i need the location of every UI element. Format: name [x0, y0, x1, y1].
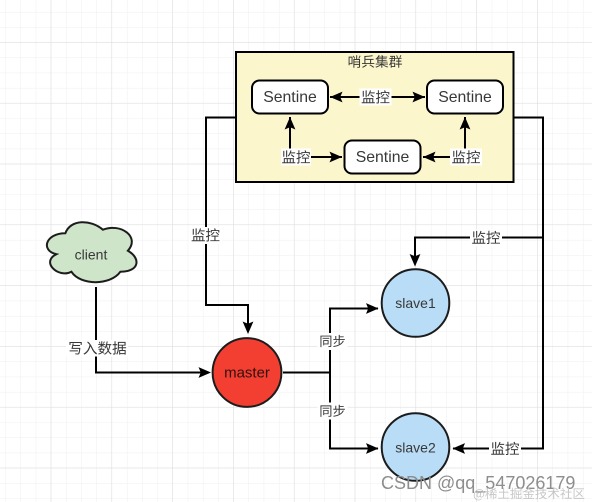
svg-text:slave1: slave1 — [395, 295, 436, 311]
svg-text:Sentine: Sentine — [263, 89, 317, 106]
wire: master -> slave2, label 同步 — [283, 373, 379, 454]
wire: master -> slave1, label 同步 — [283, 303, 379, 372]
wire: sentinel cluster -> master, label 监控 — [189, 118, 253, 335]
svg-text:master: master — [224, 365, 270, 382]
node: client cloud — [47, 222, 137, 282]
svg-text:client: client — [75, 247, 108, 263]
node: Sentine box top-left — [252, 81, 328, 114]
node: slave2 (blue circle) — [382, 413, 450, 481]
node: Sentine box bottom — [345, 141, 421, 174]
wire: sentinel cluster -> slave1, label 监控 — [410, 118, 543, 267]
container: sentinel cluster 哨兵集群 — [236, 52, 514, 182]
wire: top-left Sentine <-> top-right Sentine, label 监控 — [330, 89, 425, 106]
wire: bottom Sentine <-> top-right Sentine, label 监控 — [423, 117, 482, 166]
svg-text:Sentine: Sentine — [438, 89, 492, 106]
wire: client -> master, label 写入数据 — [66, 287, 211, 378]
wire: bottom Sentine <-> top-left Sentine, label 监控 — [281, 117, 342, 166]
svg-text:Sentine: Sentine — [356, 149, 410, 166]
svg-text:slave2: slave2 — [395, 440, 436, 456]
watermark: @稀土掘金技术社区 — [474, 488, 585, 501]
node: slave1 (blue circle) — [382, 269, 450, 337]
svg-text:CSDN @qq_547026179: CSDN @qq_547026179 — [381, 473, 575, 494]
node: Sentine box top-right — [427, 81, 503, 114]
node: master (red circle) — [213, 338, 282, 407]
watermark: CSDN @qq_547026179 — [381, 473, 575, 494]
wire: sentinel cluster -> slave2, label 监控 — [453, 118, 544, 458]
